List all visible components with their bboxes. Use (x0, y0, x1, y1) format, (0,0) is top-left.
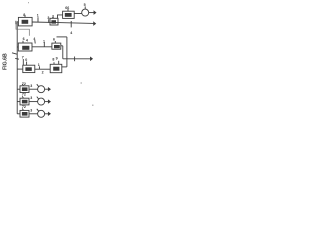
svg-text:4: 4 (33, 37, 35, 41)
svg-text:8: 8 (52, 58, 54, 62)
svg-text:66: 66 (65, 6, 69, 10)
svg-text:72: 72 (22, 105, 26, 109)
svg-text:72: 72 (22, 82, 26, 86)
svg-text:2: 2 (42, 70, 44, 74)
svg-text:6: 6 (23, 37, 25, 41)
svg-text:9: 9 (56, 56, 58, 60)
svg-text:1: 1 (37, 14, 39, 18)
svg-text:3: 3 (30, 96, 32, 100)
svg-text:8: 8 (23, 13, 25, 17)
svg-text:1: 1 (38, 63, 40, 67)
svg-text:3: 3 (47, 16, 49, 20)
svg-text:FIG.6B: FIG.6B (3, 53, 9, 70)
svg-text:7: 7 (22, 55, 24, 59)
svg-text:5: 5 (84, 3, 86, 7)
svg-text:4: 4 (26, 39, 28, 43)
svg-text:2: 2 (52, 14, 54, 18)
svg-text:0: 0 (25, 58, 27, 62)
svg-text:3: 3 (30, 108, 32, 112)
svg-text:72: 72 (22, 93, 26, 97)
svg-text:1: 1 (43, 40, 45, 44)
svg-text:3: 3 (30, 84, 32, 88)
svg-text:6: 6 (53, 38, 55, 42)
svg-text:4: 4 (70, 31, 72, 35)
